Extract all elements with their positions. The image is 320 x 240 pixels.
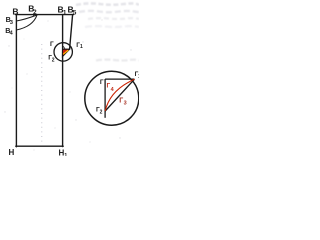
wedge (red dart) in small circle — [62, 49, 69, 57]
tick at B2 on top line — [33, 13, 35, 16]
svg-text:Г: Г — [100, 79, 104, 86]
tick above small-circle corner — [63, 46, 65, 49]
svg-text:Н: Н — [9, 148, 15, 156]
svg-text:Г: Г — [119, 98, 123, 105]
svg-text:5: 5 — [73, 9, 77, 16]
svg-text:3: 3 — [10, 20, 13, 26]
big detail circle — [85, 71, 139, 125]
wire left edge B-H — [15, 14, 17, 147]
node G4 big (red) — [107, 82, 115, 93]
node G3 big (dark red) — [119, 98, 126, 107]
red armhole curve G1-G2 — [105, 79, 134, 111]
fold line (faint dotted) — [41, 44, 43, 144]
wire small G-G1 horizontal — [63, 48, 70, 50]
svg-text:2: 2 — [52, 58, 55, 64]
wire right edge B1-H1 — [62, 15, 64, 147]
wire bottom line H-H1 — [16, 145, 63, 147]
neck curve lower B2-B4 — [16, 15, 37, 30]
ghost show-through text row 1 — [76, 3, 139, 5]
wire G-G1 horizontal in big circle — [105, 78, 134, 80]
wire G vertical in big circle — [104, 79, 106, 118]
svg-text:3: 3 — [124, 100, 127, 106]
wire B5 slant down to small-circle G1 — [70, 15, 73, 49]
ghost show-through text row 2 — [79, 11, 140, 13]
svg-text:2: 2 — [100, 110, 103, 116]
small detail circle — [54, 43, 72, 61]
ghost show-through text row 3 — [88, 17, 139, 20]
chord G1-G2 — [105, 79, 134, 111]
paper speckle noise — [4, 19, 131, 150]
svg-text:1: 1 — [80, 44, 83, 50]
svg-text:1: 1 — [63, 9, 67, 16]
ghost show-through text row 4 — [85, 25, 139, 28]
svg-text:Г: Г — [50, 41, 54, 48]
neck curve upper B2-B3 — [16, 15, 37, 21]
ghost show-through text row above big circle — [96, 58, 139, 61]
svg-text:1: 1 — [64, 153, 67, 156]
svg-text:1: 1 — [138, 74, 139, 80]
wire top line B-B1-B5 — [16, 14, 74, 16]
svg-text:В: В — [12, 7, 18, 17]
paper background — [0, 0, 139, 156]
